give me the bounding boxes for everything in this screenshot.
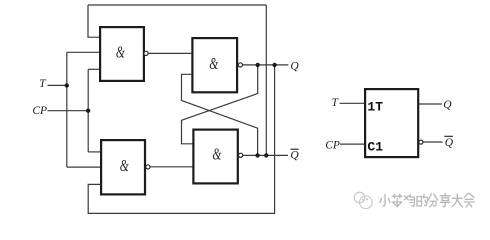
svg-text:CP: CP [32,105,47,117]
svg-text:&: & [209,55,219,74]
svg-text:Q: Q [290,60,299,72]
svg-text:&: & [212,145,222,164]
svg-text:CP: CP [325,139,340,151]
svg-text:T: T [332,97,340,109]
svg-text:Q: Q [445,137,454,149]
svg-text:Q: Q [443,99,452,111]
svg-text:T: T [39,78,47,90]
svg-text:C1: C1 [367,139,383,154]
svg-text:Q: Q [290,149,299,161]
svg-text:&: & [116,44,126,63]
svg-text:&: & [120,157,130,176]
svg-text:1T: 1T [367,99,383,114]
